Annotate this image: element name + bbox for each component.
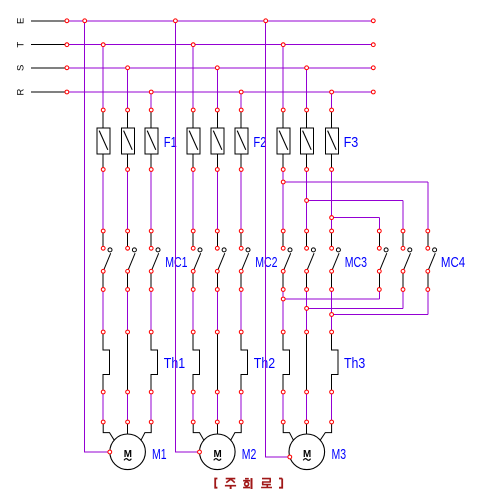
wire F2 T fuse lower lead (192, 154, 194, 170)
caption [ ju hoe ro ] (main circuit) (215, 478, 282, 489)
node bus T / drop 1 junction (101, 43, 105, 47)
fuse F2 phase R body (235, 128, 248, 154)
wire MC3-S upper lead (306, 231, 308, 248)
node contactor MC2-T bottom (191, 288, 195, 292)
wire R2 fuse to contactor (240, 170, 242, 232)
node thermal Th1 R bottom (149, 390, 153, 394)
svg-text:Th3: Th3 (344, 356, 365, 372)
node bus T / drop 2 junction (191, 43, 195, 47)
wire T3 fuse to contactor (282, 170, 284, 232)
wire bus R (67, 91, 373, 93)
fuse F3 phase S body (300, 128, 313, 154)
node contactor MC3-R gap (330, 246, 334, 250)
node contactor MC2-T top (191, 229, 195, 233)
node thermal Th2 R bottom (239, 390, 243, 394)
node bus E end (371, 19, 375, 23)
node contactor MC1-T top (101, 229, 105, 233)
node thermal Th1 R top (149, 330, 153, 334)
wire motor M1 lead R (141, 422, 151, 440)
wire S1 fuse to contactor (127, 170, 129, 232)
node contactor MC3-R bottom (330, 288, 334, 292)
wire F3 T fuse lower lead (282, 154, 284, 170)
node contactor MC3-T gap (281, 246, 285, 250)
wire F1 T fuse upper lead (102, 110, 104, 128)
node thermal Th3 T bottom (281, 390, 285, 394)
node motor lead R1 (149, 420, 153, 424)
node thermal Th1 S top (126, 330, 130, 334)
node contactor MC3-S gap (305, 246, 309, 250)
wire bus T (67, 44, 373, 46)
contactor MC4-1 fixed contact (384, 248, 388, 252)
wire T1 drop from bus (102, 45, 104, 110)
node bus E / drop 3 junction (264, 19, 268, 23)
node contactor MC3-T bottom (281, 288, 285, 292)
node contactor MC4-2 gap (401, 246, 405, 250)
wire F2 R fuse upper lead (240, 110, 242, 128)
contactor MC2-R fixed contact (246, 248, 250, 252)
thermal element Th1 phase T (103, 332, 109, 392)
node contactor MC1-S gap (126, 246, 130, 250)
wire MC2-R lower lead (240, 271, 242, 289)
wire branch S3 to MC4 horizontal (307, 200, 403, 202)
contactor MC4-2 fixed contact (408, 248, 412, 252)
node motor lead T2 (191, 420, 195, 424)
wire motor M3 lead R (320, 422, 331, 440)
fuse F1 phase T body (97, 128, 110, 154)
wire R1 contactor to thermal (150, 290, 152, 333)
node fuse F2 T bottom (191, 168, 195, 172)
node motor lead S3 (305, 420, 309, 424)
wire MC1-R upper lead (150, 231, 152, 248)
contactor MC3-T blade (283, 253, 291, 271)
wire MC2-S upper lead (216, 231, 218, 248)
wire MC1-S upper lead (127, 231, 129, 248)
node bus S / drop 1 junction (126, 66, 130, 70)
node bus R end (371, 90, 375, 94)
node thermal Th1 T top (101, 330, 105, 334)
wire MC3-R upper lead (331, 231, 333, 248)
wire S1 thermal to motor (127, 392, 129, 422)
wire MC1-T lower lead (102, 271, 104, 289)
wire motor M2 lead T (193, 422, 204, 440)
wire MC3-T upper lead (282, 231, 284, 248)
thermal element Th3 phase R (332, 332, 338, 392)
node contactor MC4-3 bottom (426, 288, 430, 292)
node fuse F2 T top (191, 108, 195, 112)
svg-text:M3: M3 (332, 447, 347, 463)
wire F1 S fuse lower lead (127, 154, 129, 170)
contactor MC2-S fixed contact (222, 248, 226, 252)
motor M3 (289, 434, 325, 470)
node bus S tap (65, 66, 69, 70)
contactor MC4-1 blade (379, 253, 387, 271)
svg-text:M: M (214, 448, 222, 460)
node contactor MC1-S lower gap (126, 269, 130, 273)
node contactor MC4-3 lower gap (426, 269, 430, 273)
node fuse F1 S bottom (126, 168, 130, 172)
node bus T / drop 3 junction (281, 43, 285, 47)
wire bus R lead-in (31, 91, 67, 93)
wire F3 R fuse upper lead (331, 110, 333, 128)
contactor MC4-3 blade (428, 253, 436, 271)
node fuse F1 S top (126, 108, 130, 112)
wire branch T3 to MC4 horizontal (283, 181, 428, 183)
node contactor MC1-S bottom (126, 288, 130, 292)
node contactor MC2-S bottom (215, 288, 219, 292)
node bus T end (371, 43, 375, 47)
wire S3 fuse to contactor (306, 170, 308, 232)
wire motor M3 lead S (306, 422, 308, 434)
node contactor MC3-R lower gap (330, 269, 334, 273)
wire motor M2 lead R (231, 422, 242, 440)
wire F3 S fuse upper lead (306, 110, 308, 128)
contactor MC2-R blade (241, 253, 249, 271)
fuse F2 phase S body (211, 128, 224, 154)
wire S3 contactor to thermal (306, 290, 308, 333)
wire MC2-T lower lead (192, 271, 194, 289)
node thermal Th2 T bottom (191, 390, 195, 394)
fuse F3 phase R body (325, 128, 338, 154)
wire T3 contactor to thermal (282, 290, 284, 333)
contactor MC1-T fixed contact (108, 248, 112, 252)
wire F1 R fuse upper lead (150, 110, 152, 128)
thermal element Th2 phase T (193, 332, 199, 392)
node contactor MC3-S lower gap (305, 269, 309, 273)
wire F3 T fuse upper lead (282, 110, 284, 128)
node thermal Th2 T top (191, 330, 195, 334)
wire T2 drop from bus (192, 45, 194, 110)
wire F2 T fuse upper lead (192, 110, 194, 128)
wire motor M1 lead S (127, 422, 129, 434)
node contactor MC4-1 lower gap (377, 269, 381, 273)
contactor MC3-R fixed contact (336, 248, 340, 252)
wire S2 fuse to contactor (216, 170, 218, 232)
node thermal Th3 S top (305, 330, 309, 334)
fuse F1 phase R body (145, 128, 158, 154)
svg-text:M: M (303, 448, 311, 460)
node contactor MC4-1 gap (377, 246, 381, 250)
wire R1 fuse to contactor (150, 170, 152, 232)
node branch S3 tap (305, 199, 309, 203)
wire R1 drop from bus (150, 92, 152, 110)
node bus S / drop 2 junction (215, 66, 219, 70)
node thermal Th2 S top (215, 330, 219, 334)
node fuse F3 S bottom (305, 168, 309, 172)
node fuse F3 R top (330, 108, 334, 112)
node contactor MC4-2 top (401, 229, 405, 233)
node motor M3 frame earth (288, 455, 292, 459)
motor M1 (110, 434, 146, 470)
wire S3 thermal to motor (306, 392, 308, 422)
node motor M2 frame earth (198, 450, 202, 454)
node motor lead R2 (239, 420, 243, 424)
node contactor MC1-T bottom (101, 288, 105, 292)
node motor lead T3 (281, 420, 285, 424)
node motor lead S2 (215, 420, 219, 424)
svg-text:E: E (16, 18, 27, 24)
svg-text:MC2: MC2 (255, 255, 277, 271)
node fuse F2 R bottom (239, 168, 243, 172)
svg-text:F3: F3 (344, 135, 359, 151)
contactor MC2-S blade (217, 253, 225, 271)
wire MC1-T upper lead (102, 231, 104, 248)
node fuse F3 T top (281, 108, 285, 112)
node fuse F3 T bottom (281, 168, 285, 172)
node fuse F2 S top (215, 108, 219, 112)
node bus S end (371, 66, 375, 70)
node bus R tap (65, 90, 69, 94)
node thermal Th3 R bottom (330, 390, 334, 394)
wire R2 drop from bus (240, 92, 242, 110)
node contactor MC4-3 top (426, 229, 430, 233)
svg-text:M1: M1 (152, 447, 167, 463)
svg-text:MC1: MC1 (165, 255, 187, 271)
node fuse F1 R top (149, 108, 153, 112)
wire MC4-3 upper lead (427, 231, 429, 248)
wire motor M3 lead T (283, 422, 293, 440)
node fuse F1 R bottom (149, 168, 153, 172)
wire MC1-R lower lead (150, 271, 152, 289)
contactor MC3-S fixed contact (311, 248, 315, 252)
node contactor MC2-R lower gap (239, 269, 243, 273)
node thermal Th2 S bottom (215, 390, 219, 394)
wire Th2 S straight element (216, 332, 218, 392)
wire MC4-1 lower lead (378, 271, 380, 289)
node MC4 return S3 tap (305, 307, 309, 311)
wire MC2-R upper lead (240, 231, 242, 248)
svg-text:M: M (124, 448, 132, 460)
contactor MC3-S blade (307, 253, 315, 271)
wire MC2-S lower lead (216, 271, 218, 289)
node fuse F3 S top (305, 108, 309, 112)
wire T3 drop from bus (282, 45, 284, 110)
node MC4 return T3 tap (281, 297, 285, 301)
wire branch R3 to MC4 vertical (378, 218, 380, 231)
node thermal Th3 S bottom (305, 390, 309, 394)
node bus E / drop 1 junction (83, 19, 87, 23)
wire S2 drop from bus (216, 68, 218, 110)
wire S3 drop from bus (306, 68, 308, 110)
thermal element Th3 phase T (283, 332, 289, 392)
node fuse F2 S bottom (215, 168, 219, 172)
node contactor MC1-S top (126, 229, 130, 233)
node contactor MC2-S gap (215, 246, 219, 250)
node thermal Th3 R top (330, 330, 334, 334)
contactor MC4-2 blade (403, 253, 411, 271)
node contactor MC2-R bottom (239, 288, 243, 292)
wire MC4 return vertical to T3 (378, 290, 380, 300)
node motor lead T1 (101, 420, 105, 424)
wire MC1-S lower lead (127, 271, 129, 289)
wire S2 thermal to motor (216, 392, 218, 422)
wire F3 S fuse lower lead (306, 154, 308, 170)
wire earth E2 to motor frame (175, 21, 199, 452)
wire branch T3 to MC4 vertical (427, 182, 429, 231)
wire S1 drop from bus (127, 68, 129, 110)
node bus T tap (65, 43, 69, 47)
node thermal Th3 T top (281, 330, 285, 334)
wire R2 thermal to motor (240, 392, 242, 422)
contactor MC1-R fixed contact (156, 248, 160, 252)
node contactor MC1-R bottom (149, 288, 153, 292)
node bus R / drop 2 junction (239, 90, 243, 94)
svg-text:T: T (16, 42, 27, 48)
svg-text:F2: F2 (253, 135, 266, 151)
wire MC4 return vertical to S3 (402, 290, 404, 309)
wire S2 contactor to thermal (216, 290, 218, 333)
wire MC4-3 lower lead (427, 271, 429, 289)
node contactor MC3-T lower gap (281, 269, 285, 273)
node contactor MC4-1 bottom (377, 288, 381, 292)
wire F3 R fuse lower lead (331, 154, 333, 170)
node motor lead S1 (126, 420, 130, 424)
motor M2 (200, 434, 236, 470)
wire MC4-2 upper lead (402, 231, 404, 248)
wire motor M1 lead T (103, 422, 114, 440)
wire MC3-R lower lead (331, 271, 333, 289)
node branch T3 tap (281, 180, 285, 184)
node MC4 return R3 tap (330, 313, 334, 317)
wire Th3 S straight element (306, 332, 308, 392)
wire bus E (67, 20, 373, 22)
svg-text:S: S (16, 65, 27, 71)
wire branch R3 to MC4 horizontal (332, 217, 380, 219)
svg-text:R: R (16, 88, 27, 95)
wire earth E3 to motor frame (266, 21, 290, 457)
wire F1 T fuse lower lead (102, 154, 104, 170)
wire F1 S fuse upper lead (127, 110, 129, 128)
node contactor MC3-S bottom (305, 288, 309, 292)
contactor MC4-3 fixed contact (433, 248, 437, 252)
node fuse F1 T bottom (101, 168, 105, 172)
svg-text:MC3: MC3 (345, 255, 367, 271)
node contactor MC2-S lower gap (215, 269, 219, 273)
node contactor MC1-R top (149, 229, 153, 233)
fuse F3 phase T body (277, 128, 290, 154)
wire R3 drop from bus (331, 92, 333, 110)
thermal element Th2 phase R (241, 332, 247, 392)
wire MC4 return horizontal to T3 (283, 298, 379, 300)
wire earth E1 to motor frame (85, 21, 110, 452)
contactor MC3-R blade (332, 253, 340, 271)
wire bus S lead-in (31, 67, 67, 69)
contactor MC1-T blade (103, 253, 111, 271)
node fuse F3 R bottom (330, 168, 334, 172)
thermal element Th1 phase R (151, 332, 157, 392)
wire R3 contactor to thermal (331, 290, 333, 333)
node thermal Th1 S bottom (126, 390, 130, 394)
node fuse F2 R top (239, 108, 243, 112)
wire MC4 return vertical to R3 (427, 290, 429, 315)
node contactor MC2-R top (239, 229, 243, 233)
wire R3 thermal to motor (331, 392, 333, 422)
node bus E / drop 2 junction (174, 19, 178, 23)
node contactor MC4-1 top (377, 229, 381, 233)
node bus R / drop 1 junction (149, 90, 153, 94)
wire bus T lead-in (31, 44, 67, 46)
node thermal Th1 T bottom (101, 390, 105, 394)
contactor MC1-S fixed contact (132, 248, 136, 252)
wire T2 thermal to motor (192, 392, 194, 422)
node bus R / drop 3 junction (330, 90, 334, 94)
node contactor MC3-R top (330, 229, 334, 233)
node contactor MC2-T lower gap (191, 269, 195, 273)
node contactor MC2-R gap (239, 246, 243, 250)
wire S1 contactor to thermal (127, 290, 129, 333)
node contactor MC3-T top (281, 229, 285, 233)
node contactor MC4-2 bottom (401, 288, 405, 292)
fuse F1 phase S body (121, 128, 134, 154)
wire bus S (67, 67, 373, 69)
contactor MC3-T fixed contact (288, 248, 292, 252)
wire F1 R fuse lower lead (150, 154, 152, 170)
fuse F2 phase T body (187, 128, 200, 154)
svg-text:F1: F1 (164, 135, 177, 151)
wire MC4-2 lower lead (402, 271, 404, 289)
wire bus E lead-in (31, 20, 67, 22)
node contactor MC4-2 lower gap (401, 269, 405, 273)
node branch R3 tap (330, 216, 334, 220)
node contactor MC2-S top (215, 229, 219, 233)
wire MC4-1 upper lead (378, 231, 380, 248)
node contactor MC1-T lower gap (101, 269, 105, 273)
wire MC3-S lower lead (306, 271, 308, 289)
node contactor MC3-S top (305, 229, 309, 233)
svg-text:Th1: Th1 (164, 356, 185, 372)
wire MC3-T lower lead (282, 271, 284, 289)
contactor MC1-R blade (151, 253, 159, 271)
wire F2 R fuse lower lead (240, 154, 242, 170)
wire F2 S fuse lower lead (216, 154, 218, 170)
wire MC2-T upper lead (192, 231, 194, 248)
node fuse F1 T top (101, 108, 105, 112)
wire R1 thermal to motor (150, 392, 152, 422)
node contactor MC1-R gap (149, 246, 153, 250)
wire MC4 return horizontal to R3 (332, 314, 428, 316)
node bus S / drop 3 junction (305, 66, 309, 70)
wire F2 S fuse upper lead (216, 110, 218, 128)
node contactor MC1-T gap (101, 246, 105, 250)
wire Th1 S straight element (127, 332, 129, 392)
wire R3 fuse to contactor (331, 170, 333, 232)
node bus E tap (65, 19, 69, 23)
contactor MC1-S blade (128, 253, 136, 271)
wire T1 thermal to motor (102, 392, 104, 422)
contactor MC2-T fixed contact (198, 248, 202, 252)
node contactor MC2-T gap (191, 246, 195, 250)
wire MC4 return horizontal to S3 (307, 307, 403, 309)
contactor MC2-T blade (193, 253, 201, 271)
wire T1 contactor to thermal (102, 290, 104, 333)
wire R2 contactor to thermal (240, 290, 242, 333)
node contactor MC4-3 gap (426, 246, 430, 250)
wire T3 thermal to motor (282, 392, 284, 422)
wire motor M2 lead S (216, 422, 218, 434)
wire T1 fuse to contactor (102, 170, 104, 232)
node thermal Th2 R top (239, 330, 243, 334)
wire T2 fuse to contactor (192, 170, 194, 232)
node motor lead R3 (330, 420, 334, 424)
node motor M1 frame earth (108, 450, 112, 454)
wire branch S3 to MC4 vertical (402, 201, 404, 232)
svg-text:Th2: Th2 (254, 356, 275, 372)
svg-text:M2: M2 (242, 447, 257, 463)
svg-text:MC4: MC4 (441, 255, 465, 271)
node contactor MC1-R lower gap (149, 269, 153, 273)
wire T2 contactor to thermal (192, 290, 194, 333)
